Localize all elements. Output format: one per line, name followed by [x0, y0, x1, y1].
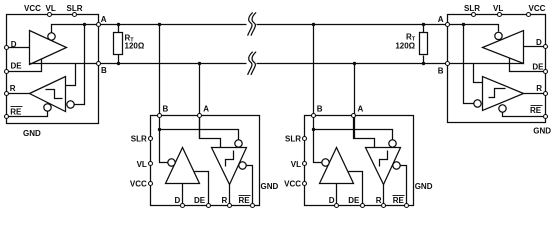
- svg-text:DE: DE: [348, 196, 360, 205]
- svg-text:SLR: SLR: [67, 4, 83, 13]
- svg-text:GND: GND: [415, 182, 433, 191]
- svg-text:120Ω: 120Ω: [395, 42, 415, 51]
- svg-text:B: B: [317, 104, 323, 113]
- svg-text:D: D: [536, 38, 542, 47]
- svg-text:R: R: [536, 84, 542, 93]
- svg-text:B: B: [438, 67, 444, 76]
- svg-text:SLR: SLR: [131, 135, 147, 144]
- svg-text:DE: DE: [11, 62, 23, 71]
- svg-text:VCC: VCC: [284, 180, 301, 189]
- svg-text:GND: GND: [261, 182, 279, 191]
- svg-text:RE: RE: [10, 108, 22, 117]
- svg-text:SLR: SLR: [285, 135, 301, 144]
- svg-text:R: R: [222, 196, 228, 205]
- svg-text:GND: GND: [533, 127, 551, 136]
- svg-text:A: A: [203, 104, 209, 113]
- svg-text:R: R: [10, 84, 16, 93]
- svg-text:VCC: VCC: [24, 4, 41, 13]
- svg-text:B: B: [101, 66, 107, 75]
- svg-text:D: D: [175, 196, 181, 205]
- svg-text:RE: RE: [393, 196, 405, 205]
- svg-text:SLR: SLR: [464, 4, 480, 13]
- svg-text:VL: VL: [493, 4, 503, 13]
- svg-text:A: A: [438, 15, 444, 24]
- svg-text:A: A: [101, 15, 107, 24]
- svg-text:DE: DE: [194, 196, 206, 205]
- svg-text:GND: GND: [23, 129, 41, 138]
- svg-text:120Ω: 120Ω: [125, 42, 145, 51]
- svg-text:R: R: [376, 196, 382, 205]
- svg-text:VL: VL: [137, 160, 147, 169]
- svg-text:DE: DE: [532, 63, 544, 72]
- svg-text:VL: VL: [46, 4, 56, 13]
- svg-text:VCC: VCC: [529, 4, 546, 13]
- svg-text:RE: RE: [530, 106, 542, 115]
- svg-text:VCC: VCC: [130, 180, 147, 189]
- svg-text:D: D: [329, 196, 335, 205]
- svg-text:VL: VL: [291, 160, 301, 169]
- svg-text:D: D: [11, 40, 17, 49]
- svg-text:RE: RE: [239, 196, 251, 205]
- svg-text:B: B: [163, 104, 169, 113]
- svg-text:A: A: [358, 104, 364, 113]
